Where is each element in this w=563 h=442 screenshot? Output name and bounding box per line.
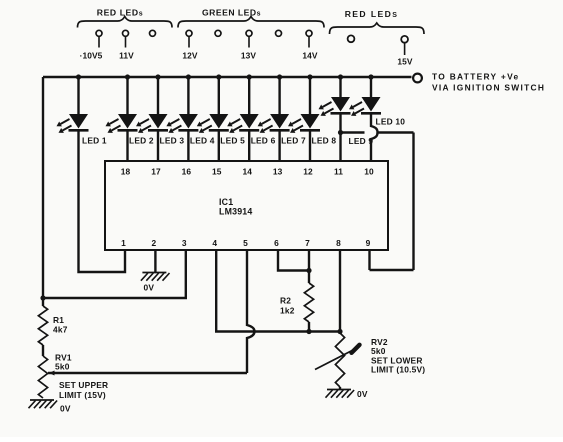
wire LED2 cathode to IC pin 18 xyxy=(126,130,128,161)
light arrows LED 2 xyxy=(110,119,119,124)
wire anode LED 10 xyxy=(370,77,372,97)
junction dot pin8 node xyxy=(337,329,342,334)
svg-text:LED 1: LED 1 xyxy=(82,136,107,146)
wire link continues after hop xyxy=(379,131,414,133)
svg-text:LED 10: LED 10 xyxy=(376,117,406,127)
svg-text:TO BATTERY +Ve: TO BATTERY +Ve xyxy=(432,72,519,82)
LED anode junction dot LED 8 xyxy=(307,74,312,79)
LED LED 6 symbol xyxy=(240,114,259,129)
light arrows LED 6 xyxy=(231,119,240,124)
LED LED 10 symbol xyxy=(362,97,381,112)
svg-text:13: 13 xyxy=(273,167,283,177)
wire anode LED 9 xyxy=(339,77,341,97)
LED anode junction dot LED 1 xyxy=(76,74,81,79)
light arrows LED 4 xyxy=(170,119,179,124)
wire anode LED 3 xyxy=(157,77,159,114)
svg-text:15: 15 xyxy=(212,167,222,177)
LED anode junction dot LED 7 xyxy=(277,74,282,79)
wire anode LED 1 xyxy=(77,77,79,114)
wire anode LED 5 xyxy=(218,77,220,114)
junction dot R2 bottom xyxy=(306,329,311,334)
svg-text:17: 17 xyxy=(151,167,161,177)
LED anode junction dot LED 10 xyxy=(368,74,373,79)
svg-text:0V: 0V xyxy=(357,389,368,399)
svg-text:2: 2 xyxy=(152,238,157,248)
light arrows LED 8 xyxy=(292,119,301,124)
svg-text:12V: 12V xyxy=(182,51,198,61)
svg-text:SET UPPER: SET UPPER xyxy=(59,380,108,390)
indicator hole circle 6 xyxy=(246,30,252,36)
tick under labelled hole xyxy=(248,37,250,48)
indicator hole circle 4 xyxy=(186,30,192,36)
light arrows LED 1 xyxy=(61,119,70,124)
indicator hole circle 3 xyxy=(150,30,156,36)
wire anode LED 2 xyxy=(126,77,128,114)
svg-text:LED 7: LED 7 xyxy=(281,136,306,146)
svg-text:14: 14 xyxy=(242,167,252,177)
potentiometer RV1 zigzag xyxy=(38,356,47,398)
svg-text:VIA IGNITION SWITCH: VIA IGNITION SWITCH xyxy=(432,83,545,93)
RV1 wiper arrowhead xyxy=(55,372,61,374)
wire pin 7 stub xyxy=(308,250,310,283)
svg-text:4k7: 4k7 xyxy=(53,325,68,335)
wire LED9 cathode to IC pin 11 xyxy=(339,113,341,161)
tick under labelled hole xyxy=(308,37,310,48)
ground at RV2 xyxy=(339,387,341,390)
wire anode LED 8 xyxy=(309,77,311,114)
ground at RV2 xyxy=(327,389,351,391)
junction dot pin6/pin7 xyxy=(306,268,311,273)
wire bottom of mode link to pin 9 xyxy=(370,269,414,271)
svg-text:4: 4 xyxy=(212,238,217,248)
svg-text:0V: 0V xyxy=(144,283,155,293)
svg-text:LED 4: LED 4 xyxy=(190,136,215,146)
light arrows LED 3 xyxy=(140,119,149,124)
LED anode junction dot LED 5 xyxy=(216,74,221,79)
indicator hole circle 8 xyxy=(306,30,312,36)
svg-text:16: 16 xyxy=(182,167,192,177)
wire left rail down to R1 xyxy=(42,77,44,306)
svg-text:RED LEDs: RED LEDs xyxy=(97,8,143,18)
resistor R1 zigzag xyxy=(38,306,47,345)
wire pin 2 stub xyxy=(154,250,156,273)
wire pin 3 stub down and left to rail xyxy=(43,250,186,298)
wire LED4 cathode to IC pin 16 xyxy=(187,130,189,161)
light arrows LED 7 xyxy=(262,119,271,124)
svg-text:6: 6 xyxy=(274,238,279,248)
svg-text:15V: 15V xyxy=(397,57,413,67)
svg-text:7: 7 xyxy=(305,238,310,248)
LED anode junction dot LED 9 xyxy=(338,74,343,79)
indicator hole circle 5 xyxy=(215,30,221,36)
svg-text:LED 8: LED 8 xyxy=(312,136,337,146)
LED LED 7 symbol xyxy=(270,114,289,129)
svg-text:LIMIT (15V): LIMIT (15V) xyxy=(59,390,106,400)
svg-text:10: 10 xyxy=(364,167,374,177)
svg-text:·10V5: ·10V5 xyxy=(80,51,103,61)
wire R2 bottom to node xyxy=(308,322,310,332)
resistor R2 zigzag xyxy=(304,283,313,322)
svg-text:12: 12 xyxy=(303,167,313,177)
indicator hole circle 9 xyxy=(348,35,355,42)
svg-text:LED 3: LED 3 xyxy=(160,136,185,146)
svg-text:IC1: IC1 xyxy=(219,197,233,207)
wire RV1 wiper line xyxy=(48,372,247,374)
junction dot rail/pin3 xyxy=(40,295,45,300)
svg-text:0V: 0V xyxy=(60,404,71,414)
wire LED8 cathode to IC pin 12 xyxy=(309,130,311,161)
wire pin 4 stub down and right xyxy=(216,250,340,332)
LED LED 1 symbol xyxy=(69,114,88,129)
LED anode junction dot LED 2 xyxy=(125,74,130,79)
svg-text:1k2: 1k2 xyxy=(280,306,295,316)
wire pin 9 stub xyxy=(368,250,370,270)
wire LED5 cathode to IC pin 15 xyxy=(218,130,220,161)
svg-text:LM3914: LM3914 xyxy=(219,207,252,217)
svg-text:14V: 14V xyxy=(302,51,318,61)
op-amp IC U1 LM3914 box xyxy=(105,161,388,250)
svg-text:LED 5: LED 5 xyxy=(220,136,245,146)
svg-text:LED 2: LED 2 xyxy=(129,136,154,146)
LED LED 3 symbol xyxy=(149,114,168,129)
wire LED6 cathode to IC pin 14 xyxy=(248,130,250,161)
svg-text:18: 18 xyxy=(121,167,131,177)
tick under labelled hole xyxy=(188,37,190,48)
svg-text:1: 1 xyxy=(121,238,126,248)
svg-text:5k0: 5k0 xyxy=(371,346,386,356)
junction dot node LED9/pin11 link xyxy=(338,130,343,135)
wire right vertical of mode link xyxy=(412,133,414,271)
wire anode LED 6 xyxy=(248,77,250,114)
light arrows LED 5 xyxy=(201,119,210,124)
LED LED 2 symbol xyxy=(118,114,137,129)
wire R1 to RV1 xyxy=(42,345,44,356)
LED LED 4 symbol xyxy=(179,114,198,129)
wire LED1 cathode down left of IC to pin 1 xyxy=(79,130,126,272)
battery terminal xyxy=(413,74,422,83)
RV2 wiper arrow xyxy=(315,349,355,370)
wire LED7 cathode to IC pin 13 xyxy=(278,130,280,161)
svg-text:LED 6: LED 6 xyxy=(251,136,276,146)
svg-text:R1: R1 xyxy=(53,315,64,325)
svg-text:RED LEDS: RED LEDS xyxy=(345,9,399,19)
wire anode LED 7 xyxy=(278,77,280,114)
wire top supply rail xyxy=(43,76,412,78)
wire pin 5 down with hop to RV1 wiper line xyxy=(247,250,255,373)
tick under labelled hole xyxy=(98,37,100,48)
tick under labelled hole xyxy=(125,37,127,48)
wire LED10 cathode to IC pin 10 with hop xyxy=(371,113,378,161)
LED anode junction dot LED 3 xyxy=(155,74,160,79)
svg-text:5: 5 xyxy=(243,238,248,248)
LED LED 9 symbol xyxy=(331,97,350,112)
LED anode junction dot LED 6 xyxy=(247,74,252,79)
brace over left red LED group xyxy=(78,17,173,28)
brace over right red LED group xyxy=(330,23,425,34)
indicator hole circle 7 xyxy=(276,30,282,36)
LED LED 5 symbol xyxy=(209,114,228,129)
LED LED 8 symbol xyxy=(301,114,320,129)
light arrows LED 9 xyxy=(323,102,332,107)
svg-text:LIMIT (10.5V): LIMIT (10.5V) xyxy=(371,365,425,375)
svg-text:13V: 13V xyxy=(241,51,257,61)
wire anode LED 4 xyxy=(187,77,189,114)
svg-text:R2: R2 xyxy=(280,296,291,306)
wire link LED9 node to right vertical xyxy=(341,131,365,133)
svg-text:8: 8 xyxy=(336,238,341,248)
tick under 15V hole xyxy=(404,44,406,56)
wire LED3 cathode to IC pin 17 xyxy=(157,130,159,161)
ground at RV1 xyxy=(30,399,54,401)
LED anode junction dot LED 4 xyxy=(186,74,191,79)
svg-text:GREEN LEDs: GREEN LEDs xyxy=(202,8,261,18)
svg-text:11V: 11V xyxy=(119,51,134,61)
svg-text:9: 9 xyxy=(366,238,371,248)
svg-text:5k0: 5k0 xyxy=(55,362,70,372)
svg-text:11: 11 xyxy=(334,167,343,177)
svg-text:LED 9: LED 9 xyxy=(349,136,374,146)
potentiometer RV2 zigzag xyxy=(335,333,344,387)
indicator hole circle 2 xyxy=(123,30,129,36)
ground at pin 2 xyxy=(142,272,166,274)
wire pin 6 stub and link to pin 7 xyxy=(278,250,309,271)
brace over green LED group xyxy=(178,17,324,28)
indicator hole circle 10 xyxy=(401,36,408,43)
light arrows LED 10 xyxy=(353,102,362,107)
svg-text:3: 3 xyxy=(182,238,187,248)
wire pin 8 down to RV2 xyxy=(339,250,341,333)
indicator hole circle 1 xyxy=(96,30,102,36)
